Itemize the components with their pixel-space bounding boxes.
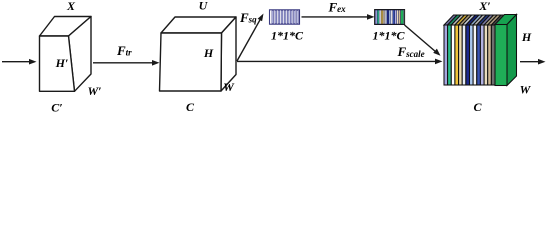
svg-text:C: C <box>186 100 195 114</box>
input arrow <box>2 59 37 65</box>
output tensor X' stack <box>444 15 517 86</box>
svg-text:W: W <box>223 80 235 94</box>
svg-text:X′: X′ <box>478 0 490 13</box>
F_sq arrow <box>237 14 264 62</box>
svg-text:C′: C′ <box>51 101 62 115</box>
tensor X cuboid <box>40 17 92 92</box>
scale diagonal arrow <box>405 25 441 56</box>
F_ex arrow <box>302 14 375 20</box>
svg-text:H: H <box>203 46 214 60</box>
svg-text:H′: H′ <box>55 56 69 70</box>
F_scale arrow <box>237 59 443 65</box>
tensor U cube <box>160 17 237 91</box>
svg-text:1*1*C: 1*1*C <box>271 29 304 43</box>
svg-text:W: W <box>520 83 532 97</box>
svg-text:1*1*C: 1*1*C <box>372 29 405 43</box>
svg-text:H: H <box>521 30 532 44</box>
svg-text:U: U <box>199 0 209 13</box>
svg-text:X: X <box>66 0 76 13</box>
F_tr arrow <box>93 60 160 66</box>
output arrow <box>520 59 546 65</box>
svg-text:W′: W′ <box>87 84 101 98</box>
excitation vector 1x1xC colored <box>375 10 405 25</box>
svg-text:C: C <box>473 100 482 114</box>
squeeze vector 1x1xC <box>270 10 300 24</box>
